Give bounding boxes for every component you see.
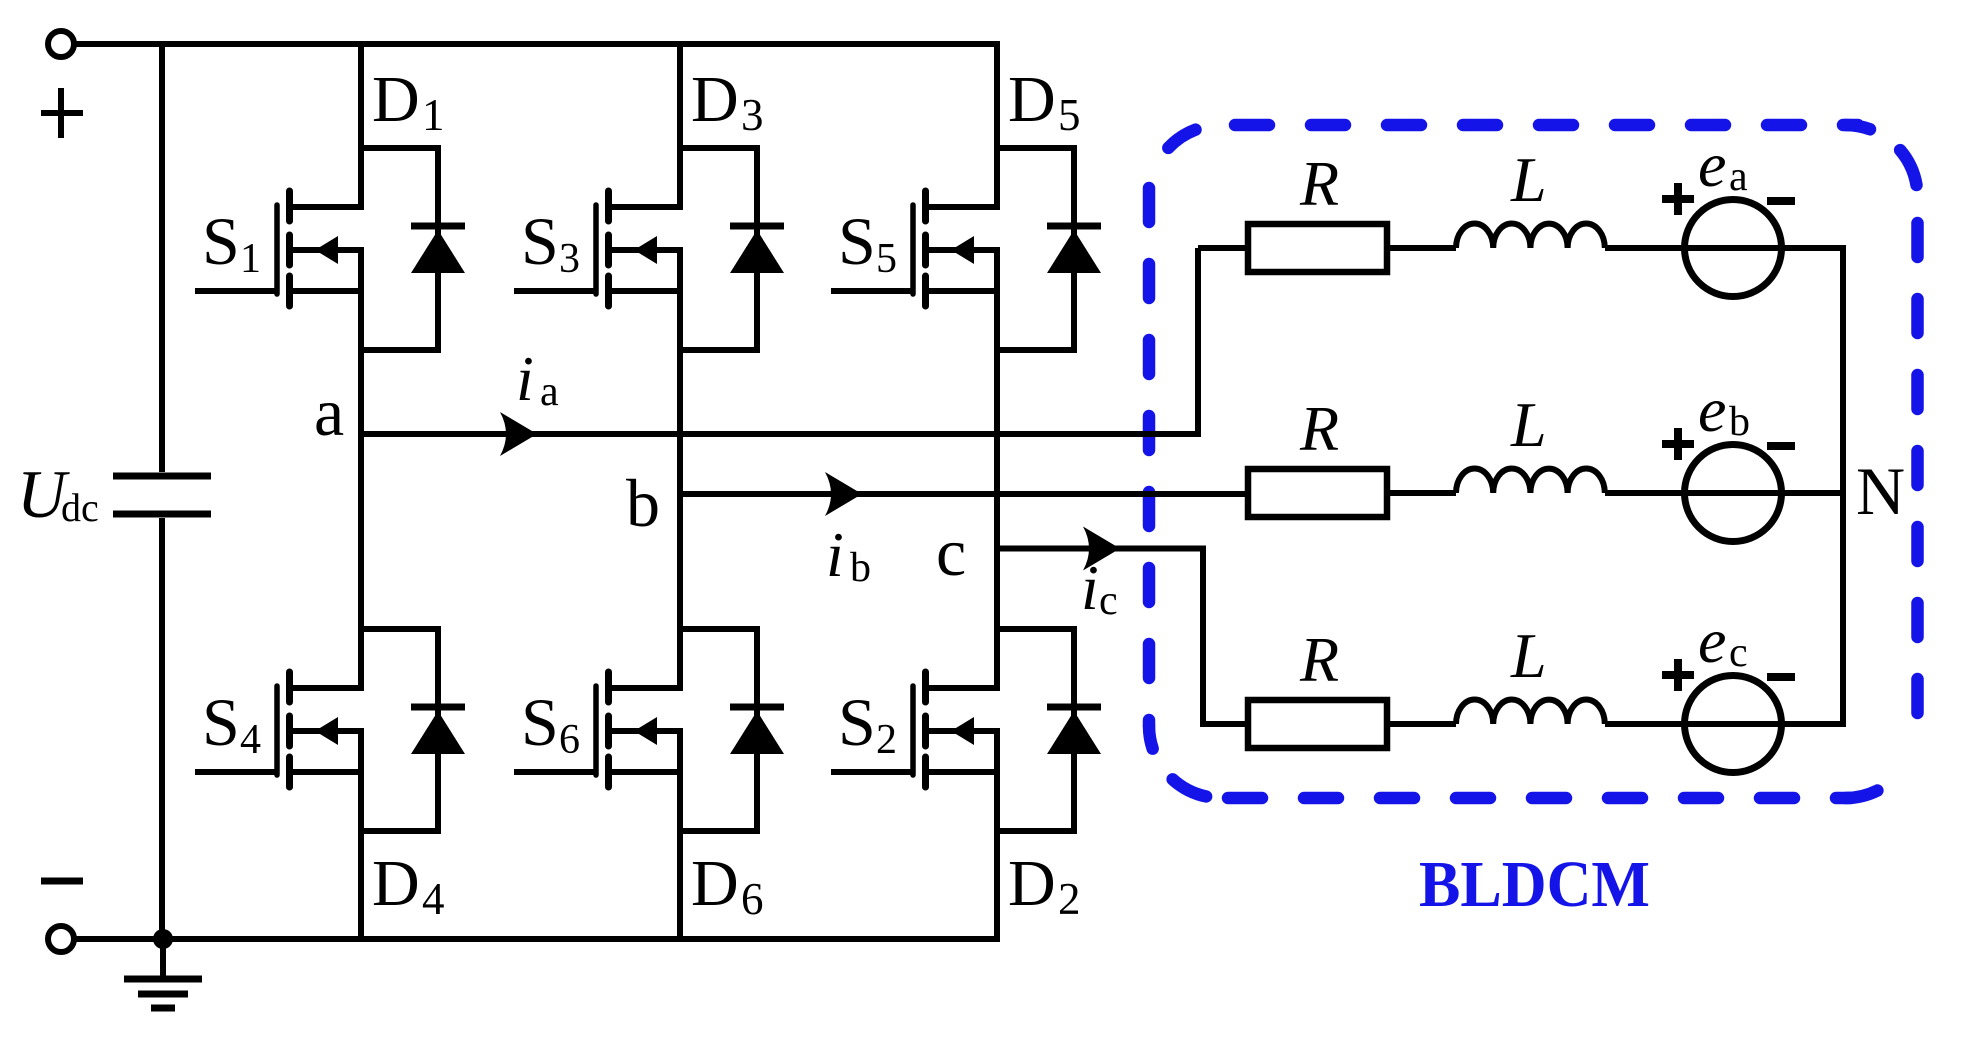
polarity minus eb xyxy=(1767,442,1795,450)
wire top rail xyxy=(74,41,1000,47)
svg-text:S: S xyxy=(202,684,240,760)
polarity minus ec xyxy=(1767,673,1795,681)
transistor S3 xyxy=(514,191,683,306)
svg-text:a: a xyxy=(314,374,344,450)
svg-text:4: 4 xyxy=(422,874,445,924)
polarity plus ea xyxy=(1662,183,1694,215)
svg-text:D: D xyxy=(691,63,739,136)
wire leg 3 lower vertical xyxy=(994,731,1000,939)
transistor S6 xyxy=(514,672,683,787)
svg-text:3: 3 xyxy=(741,90,764,140)
emf source eb xyxy=(1685,445,1782,542)
minus label xyxy=(41,878,83,885)
svg-text:D: D xyxy=(372,63,420,136)
svg-text:D: D xyxy=(1008,847,1056,920)
svg-text:S: S xyxy=(202,203,240,279)
wire leg 3 middle vertical xyxy=(994,250,1000,688)
svg-text:a: a xyxy=(1729,154,1748,200)
wire R to L phase a xyxy=(1387,245,1456,251)
svg-text:S: S xyxy=(521,684,559,760)
wire phase a into branch xyxy=(1198,245,1248,251)
arrow ia xyxy=(500,412,537,456)
polarity minus ea xyxy=(1767,197,1795,205)
svg-text:D: D xyxy=(372,847,420,920)
arrow ib xyxy=(825,472,862,516)
diode D3 xyxy=(680,148,784,350)
diode D1 xyxy=(361,148,465,350)
svg-text:L: L xyxy=(1510,389,1547,460)
svg-text:1: 1 xyxy=(240,236,261,282)
svg-text:a: a xyxy=(540,369,559,415)
node junction dot bottom rail xyxy=(153,929,173,949)
transistor S4 xyxy=(195,672,364,787)
diode D5 xyxy=(997,148,1101,350)
dashed box right edge xyxy=(1911,197,1924,726)
svg-text:R: R xyxy=(1299,393,1339,464)
transistor S5 xyxy=(831,191,1000,306)
svg-text:b: b xyxy=(626,465,660,541)
wire leg 3 upper vertical xyxy=(994,44,1000,207)
dashed box top edge xyxy=(1221,119,1858,132)
svg-text:e: e xyxy=(1698,605,1726,676)
svg-text:3: 3 xyxy=(559,236,580,282)
svg-text:S: S xyxy=(521,203,559,279)
svg-text:5: 5 xyxy=(876,236,897,282)
dashed box top-right corner xyxy=(1846,125,1918,197)
dashed box bottom-left corner xyxy=(1149,726,1221,798)
svg-text:c: c xyxy=(1729,630,1748,676)
svg-text:5: 5 xyxy=(1058,90,1081,140)
svg-text:i: i xyxy=(826,519,844,590)
svg-text:c: c xyxy=(936,514,966,590)
wire leg 1 middle vertical xyxy=(358,250,364,688)
svg-text:e: e xyxy=(1698,129,1726,200)
svg-text:2: 2 xyxy=(1058,874,1081,924)
ground xyxy=(160,939,166,977)
transistor S2 xyxy=(831,672,1000,787)
svg-text:b: b xyxy=(1729,399,1750,445)
svg-text:i: i xyxy=(516,343,534,414)
wire R to L phase b xyxy=(1387,490,1456,496)
svg-text:D: D xyxy=(691,847,739,920)
svg-text:i: i xyxy=(1081,552,1099,623)
svg-text:L: L xyxy=(1510,620,1547,691)
wire phase a xyxy=(361,248,1198,434)
wire capacitor top xyxy=(159,44,165,472)
wire leg 1 upper vertical xyxy=(358,44,364,207)
wire phase b xyxy=(680,491,1248,497)
dashed box left edge xyxy=(1143,182,1156,726)
polarity plus ec xyxy=(1662,659,1694,691)
svg-text:1: 1 xyxy=(422,90,445,140)
emf source ea xyxy=(1685,200,1782,297)
wire leg 2 upper vertical xyxy=(677,44,683,207)
svg-text:BLDCM: BLDCM xyxy=(1419,848,1650,921)
svg-text:L: L xyxy=(1510,144,1547,215)
wire R to L phase c xyxy=(1387,721,1456,727)
svg-text:dc: dc xyxy=(61,485,99,530)
wire leg 2 middle vertical xyxy=(677,250,683,688)
svg-text:R: R xyxy=(1299,148,1339,219)
dashed box top-left corner xyxy=(1149,125,1221,197)
wire leg 2 lower vertical xyxy=(677,731,683,939)
svg-text:6: 6 xyxy=(741,874,764,924)
plus label xyxy=(41,88,83,138)
wire leg 1 lower vertical xyxy=(358,731,364,939)
svg-text:6: 6 xyxy=(559,717,580,763)
svg-text:N: N xyxy=(1856,453,1905,529)
svg-text:e: e xyxy=(1698,374,1726,445)
wire neutral bus xyxy=(1840,248,1846,724)
dashed box bottom edge xyxy=(1221,792,1851,805)
resistor R phase b xyxy=(1248,469,1387,517)
svg-text:c: c xyxy=(1099,578,1118,624)
dashed box bottom-right corner xyxy=(1846,726,1918,798)
capacitor Udc xyxy=(113,476,211,514)
svg-text:4: 4 xyxy=(240,717,261,763)
wire L to emf phase b xyxy=(1605,490,1846,496)
emf source ec xyxy=(1685,676,1782,773)
wire L to emf phase c xyxy=(1605,721,1846,727)
inductor L phase c xyxy=(1456,700,1605,725)
inductor L phase b xyxy=(1456,468,1605,493)
wire phase c xyxy=(997,549,1248,725)
inductor L phase a xyxy=(1456,224,1605,249)
polarity plus eb xyxy=(1662,428,1694,460)
wire bottom rail xyxy=(74,936,1000,942)
arrow ic xyxy=(1083,527,1120,571)
svg-text:2: 2 xyxy=(876,717,897,763)
resistor R phase c xyxy=(1248,700,1387,748)
resistor R phase a xyxy=(1248,224,1387,272)
terminal + (top left) xyxy=(48,31,74,57)
diode D4 xyxy=(361,629,465,831)
wire L to emf phase a xyxy=(1605,245,1846,251)
terminal - (bottom left) xyxy=(48,926,74,952)
svg-text:S: S xyxy=(838,203,876,279)
svg-text:R: R xyxy=(1299,624,1339,695)
diode D2 xyxy=(997,629,1101,831)
BLDCM dashed boundary box xyxy=(1149,125,1918,798)
wire capacitor bottom xyxy=(159,518,165,939)
transistor S1 xyxy=(195,191,364,306)
svg-text:b: b xyxy=(850,545,871,591)
svg-text:S: S xyxy=(838,684,876,760)
diode D6 xyxy=(680,629,784,831)
svg-text:D: D xyxy=(1008,63,1056,136)
